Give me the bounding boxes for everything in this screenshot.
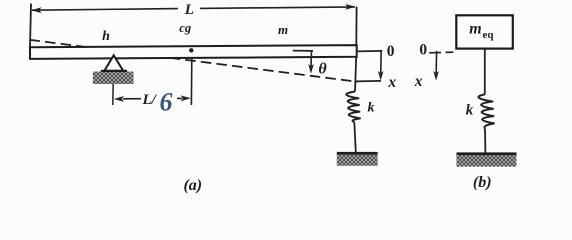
svg-text:m: m — [469, 20, 481, 37]
svg-text:6: 6 — [160, 88, 173, 117]
svg-text:θ: θ — [318, 61, 327, 78]
svg-text:x: x — [387, 74, 396, 91]
svg-text:eq: eq — [483, 29, 495, 41]
svg-text:cg: cg — [179, 21, 191, 35]
svg-text:L/: L/ — [142, 92, 158, 108]
svg-text:0: 0 — [419, 41, 427, 58]
svg-text:(a): (a) — [183, 177, 202, 194]
svg-text:0: 0 — [387, 43, 395, 60]
svg-text:(b): (b) — [473, 174, 492, 191]
svg-text:k: k — [368, 101, 375, 116]
svg-text:m: m — [278, 22, 288, 37]
svg-text:k: k — [466, 102, 474, 118]
svg-text:h: h — [102, 29, 110, 44]
svg-text:x: x — [414, 73, 423, 90]
svg-text:L: L — [184, 2, 194, 18]
